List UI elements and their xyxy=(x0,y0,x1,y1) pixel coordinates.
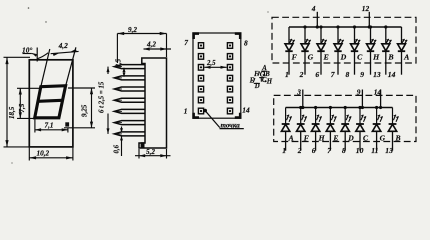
svg-text:A: A xyxy=(288,133,294,142)
svg-text:5,2: 5,2 xyxy=(146,148,155,156)
svg-text:18,5: 18,5 xyxy=(8,106,16,119)
svg-text:6: 6 xyxy=(312,146,316,155)
svg-text:G: G xyxy=(308,53,314,62)
svg-text:H: H xyxy=(318,133,326,142)
svg-text:0,6: 0,6 xyxy=(113,144,120,153)
svg-text:A: A xyxy=(403,53,409,62)
svg-text:3: 3 xyxy=(296,87,301,96)
svg-text:8: 8 xyxy=(342,146,346,155)
svg-text:1: 1 xyxy=(285,70,289,79)
svg-text:6 t 2,5 = 15: 6 t 2,5 = 15 xyxy=(99,81,106,113)
svg-text:C: C xyxy=(357,53,363,62)
svg-text:14: 14 xyxy=(388,70,396,79)
svg-text:4,2: 4,2 xyxy=(58,41,69,50)
svg-text:D: D xyxy=(254,83,260,90)
svg-text:1: 1 xyxy=(184,107,188,116)
svg-text:14: 14 xyxy=(242,106,250,115)
svg-text:10: 10 xyxy=(356,146,364,155)
svg-text:8: 8 xyxy=(346,70,350,79)
svg-text:9: 9 xyxy=(357,87,361,96)
svg-text:8: 8 xyxy=(244,38,248,47)
svg-text:H: H xyxy=(372,53,380,62)
svg-text:F: F xyxy=(304,133,309,142)
svg-text:2: 2 xyxy=(299,70,304,79)
svg-text:D: D xyxy=(340,53,347,62)
svg-text:G: G xyxy=(380,133,386,142)
svg-text:4,2: 4,2 xyxy=(146,41,156,49)
svg-text:4: 4 xyxy=(311,4,316,13)
svg-text:2: 2 xyxy=(297,146,302,155)
svg-text:7: 7 xyxy=(184,38,188,47)
svg-text:1: 1 xyxy=(282,146,286,155)
svg-text:E: E xyxy=(332,133,338,142)
svg-text:9: 9 xyxy=(360,70,364,79)
svg-text:13: 13 xyxy=(385,146,393,155)
svg-text:E: E xyxy=(323,53,329,62)
svg-text:12: 12 xyxy=(362,4,370,13)
svg-text:D: D xyxy=(347,133,354,142)
svg-text:9,2: 9,2 xyxy=(128,26,137,34)
svg-text:B: B xyxy=(387,53,393,62)
svg-text:2,5: 2,5 xyxy=(116,58,123,68)
svg-text:10,2: 10,2 xyxy=(37,150,50,158)
svg-text:2,5: 2,5 xyxy=(206,60,216,67)
svg-text:6: 6 xyxy=(315,70,319,79)
svg-text:7,1: 7,1 xyxy=(45,122,54,130)
svg-text:B: B xyxy=(395,133,401,142)
svg-text:13: 13 xyxy=(373,70,381,79)
svg-text:9,25: 9,25 xyxy=(80,104,88,117)
svg-text:H: H xyxy=(266,78,273,85)
svg-text:F: F xyxy=(292,53,298,62)
svg-text:11: 11 xyxy=(371,146,378,155)
svg-text:7,5: 7,5 xyxy=(18,103,26,112)
